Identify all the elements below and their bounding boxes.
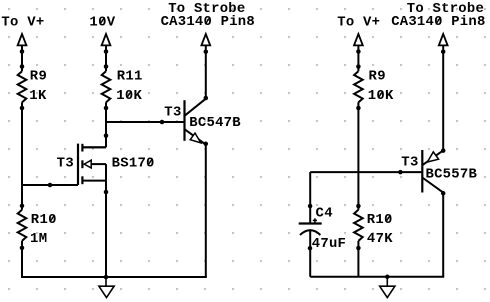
label R9 (left) (30, 68, 47, 84)
label 1K (29, 88, 47, 104)
label To Strobe (right) (407, 1, 484, 17)
ground symbol (left) (99, 277, 114, 298)
wire collector to ground rail (right) (441, 191, 446, 277)
wire R11 to drain (83, 102, 109, 147)
wire emitter to ground rail (204, 142, 209, 277)
terminal arrow To Strobe (right) (439, 34, 448, 45)
svg-text:R9: R9 (369, 68, 386, 84)
wire strobe to collector (204, 45, 209, 100)
svg-text:10K: 10K (116, 88, 142, 104)
svg-text:T3: T3 (164, 104, 181, 120)
svg-text:R9: R9 (30, 68, 47, 84)
plus sign C4 polarity (313, 218, 317, 222)
svg-text:BC557B: BC557B (426, 167, 478, 183)
svg-text:CA3140 Pin8: CA3140 Pin8 (391, 14, 485, 30)
wire R9 to R10 (20, 102, 25, 209)
svg-text:R10: R10 (367, 212, 393, 228)
terminal arrow V+ (right) (354, 34, 363, 45)
label To V+ (left) (1, 14, 44, 30)
wire V+ to R9 (20, 46, 25, 72)
svg-text:BC547B: BC547B (189, 115, 241, 131)
wire strobe to emitter (right) (441, 45, 446, 152)
resistor R10 (1M) (18, 210, 27, 250)
resistor R9 (10K, right) (354, 71, 363, 110)
wire R10 to ground rail (21, 241, 23, 277)
svg-text:47uF: 47uF (312, 236, 346, 252)
label T3 (BC557B) (401, 155, 418, 171)
transistor T3 BC547B (NPN) (185, 99, 206, 145)
terminal arrow V+ (left) (18, 34, 27, 45)
wire source to ground rail (104, 181, 109, 280)
wire 10V to R11 (104, 46, 109, 72)
resistor R10 (47K, right) (354, 210, 363, 251)
label BC557B (426, 167, 478, 183)
svg-text:47K: 47K (367, 231, 393, 247)
wire R9 to R10 (right) (356, 102, 361, 209)
label R10 (left) (31, 212, 57, 228)
ground rail (left circuit) (21, 276, 207, 278)
wire V+ to R9 (right) (356, 46, 361, 72)
label 10K (right) (368, 88, 394, 104)
svg-text:10K: 10K (368, 88, 394, 104)
label BC547B (189, 115, 241, 131)
ground rail (right circuit) (310, 275, 444, 280)
svg-text:To V+: To V+ (337, 14, 380, 30)
label 10V (89, 14, 115, 30)
svg-text:R11: R11 (117, 68, 143, 84)
svg-text:To V+: To V+ (1, 14, 44, 30)
label C4 (316, 205, 333, 221)
ground symbol (right) (380, 277, 395, 298)
resistor R9 (1K) (18, 71, 27, 110)
svg-text:1K: 1K (29, 88, 47, 104)
svg-text:T3: T3 (57, 156, 74, 172)
terminal arrow To Strobe (left) (201, 34, 210, 45)
wire node to gate (21, 183, 78, 188)
transistor T3 BC557B (PNP) (422, 150, 443, 193)
svg-text:CA3140 Pin8: CA3140 Pin8 (161, 14, 255, 30)
label 1M (30, 231, 47, 247)
terminal arrow 10V (102, 34, 111, 45)
label BS170 (112, 156, 155, 172)
label To Strobe (left) (168, 1, 245, 17)
wire node to base (BC547B) (106, 120, 184, 125)
label CA3140 Pin8 (left) (161, 14, 255, 30)
svg-text:C4: C4 (316, 205, 333, 221)
wire R10 to ground rail (right) (357, 241, 359, 277)
wire node C4 / base (BC557B) (310, 170, 421, 175)
svg-text:BS170: BS170 (112, 156, 155, 172)
resistor R11 (10K) (102, 71, 111, 110)
label T3 (BC547B) (164, 104, 181, 120)
svg-text:T3: T3 (401, 155, 418, 171)
svg-text:1M: 1M (30, 231, 47, 247)
label R9 (right) (369, 68, 386, 84)
label CA3140 Pin8 (right) (391, 14, 485, 30)
capacitor C4 (47uF) (299, 172, 322, 277)
label 47K (367, 231, 393, 247)
transistor T3 BS170 (MOSFET) (78, 144, 106, 185)
label To V+ (right) (337, 14, 380, 30)
svg-text:10V: 10V (89, 14, 115, 30)
svg-text:R10: R10 (31, 212, 57, 228)
label R11 (117, 68, 143, 84)
label T3 (BS170) (57, 156, 74, 172)
label R10 (right) (367, 212, 393, 228)
label 10K (left) (116, 88, 142, 104)
label 47uF (312, 236, 346, 252)
